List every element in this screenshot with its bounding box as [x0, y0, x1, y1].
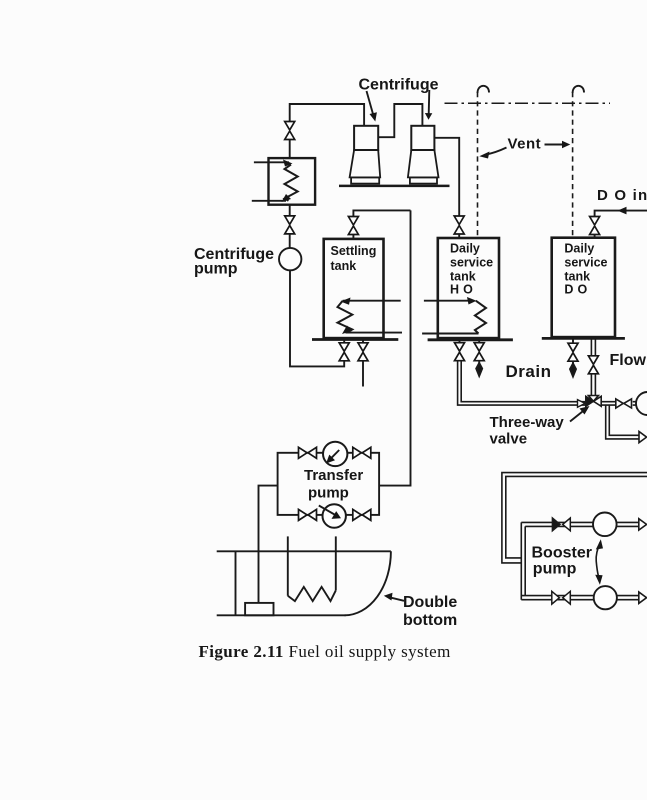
heater inlet arrowhead [283, 160, 293, 167]
vent pipe 2 dashed [572, 92, 574, 238]
valve V4 under settling tank (drain) [358, 343, 368, 361]
open arrow at branch end [639, 432, 647, 443]
booster return loop outer [502, 473, 647, 563]
valve V18 lower-right transfer [353, 509, 371, 520]
daily service tank DO box [552, 238, 615, 337]
three-way valve left triangle (dark) [586, 396, 594, 406]
double bottom tank bottom line [217, 614, 346, 616]
valve V10 under DO tank (drain) [568, 343, 578, 361]
HO coil zigzag [475, 301, 486, 334]
svg-text:bottom: bottom [403, 612, 457, 629]
booster pump P2 circle [593, 513, 617, 537]
centrifuge 1 base [351, 177, 379, 183]
heater coil exit arrowhead [282, 194, 292, 202]
P5 direction arrow [319, 506, 338, 517]
settling tank coil arrowhead [341, 298, 351, 305]
P4 arrowhead [326, 455, 335, 464]
svg-text:Centrifuge: Centrifuge [359, 77, 439, 94]
vent label right arrow [545, 144, 565, 146]
centrifuge arrow 1 head [370, 112, 377, 121]
valve V13 right half [563, 518, 571, 531]
settling tank coil upper line [343, 300, 401, 302]
wire: valve V3 to tank bottom [343, 339, 345, 343]
HO tank base line [428, 338, 513, 341]
double bottom leader arrowhead [384, 593, 393, 601]
flow arrowhead on drain run [578, 400, 586, 408]
settling tank base line [312, 338, 398, 341]
HO coil arrowhead [467, 297, 477, 305]
wire: settling tank top valve to fill pipe [353, 210, 410, 239]
upper booster discharge double pipe [617, 522, 640, 526]
valve V13 upper booster (left filled) [552, 518, 560, 531]
centrifuge arrow 2 head [425, 113, 432, 120]
svg-text:Drain: Drain [506, 362, 552, 381]
heater coil zigzag [285, 165, 298, 201]
booster suction manifold double line [521, 522, 525, 599]
settling tank coil exit arrowhead [342, 326, 352, 335]
double bottom bilge arc [345, 551, 391, 615]
flowmeter circle (clipped at edge) [636, 392, 647, 415]
double bottom label leader [389, 597, 404, 601]
vent label left arrow [485, 148, 507, 155]
svg-text:tank: tank [331, 259, 357, 273]
HO coil upper line [424, 300, 472, 302]
svg-text:service: service [450, 256, 493, 270]
svg-text:tank: tank [564, 270, 590, 284]
open arrow upper discharge [639, 519, 647, 530]
HO suction double pipe to three-way valve (outer) [458, 361, 586, 405]
svg-text:Transfer: Transfer [304, 467, 363, 484]
DO supply double pipe upper segment [591, 338, 595, 356]
HO coil lower line [422, 333, 478, 335]
wire: top-left horizontal pipe to centrifuge 1 [290, 104, 364, 125]
centrifuge 1 inlet wire already drawn; centrifuge 1 bowl top [354, 126, 378, 150]
upper booster suction double pipe [521, 522, 593, 526]
DO inlet pipe with valve [595, 211, 647, 217]
wire: centrifuge 2 discharge down to HO tank valve [434, 138, 459, 216]
DO inlet arrowhead [618, 207, 627, 215]
svg-text:D O: D O [564, 283, 587, 297]
svg-text:tank: tank [450, 270, 476, 284]
centrifuge 1 body trapezoid [350, 150, 381, 177]
vent pipe 1 dashed [477, 92, 479, 238]
wire: V8 stub to tank base [478, 340, 480, 343]
booster label arrowhead top [596, 539, 603, 549]
svg-text:Three-way: Three-way [490, 414, 565, 431]
valve V14 lower booster [552, 591, 560, 604]
wire: drain stub below valve V4 [362, 361, 364, 387]
daily service tank HO box [438, 238, 499, 338]
DO tank base line [542, 337, 625, 340]
booster pump P3 circle [594, 586, 617, 609]
valve V7 under HO tank (suction) [455, 343, 465, 361]
double bottom coil pipe 2 [335, 536, 337, 590]
valve V3 under settling tank (suction) [339, 343, 349, 361]
svg-text:Flowmeter: Flowmeter [610, 352, 647, 369]
valve V1 above heater [285, 122, 295, 140]
svg-text:Figure 2.11 Fuel oil supply sy: Figure 2.11 Fuel oil supply system [199, 642, 451, 661]
open arrow lower discharge [639, 592, 647, 603]
double bottom coil pipe 1 [287, 536, 289, 595]
valve V16 upper-right transfer [353, 447, 371, 458]
svg-text:Daily: Daily [450, 242, 480, 256]
svg-text:Daily: Daily [564, 242, 594, 256]
valve V2 below heater [285, 216, 295, 234]
suction bellmouth box [245, 603, 273, 615]
drain arrow below V10 [570, 364, 576, 377]
valve V15 upper-left transfer [299, 447, 317, 458]
vent label right arrowhead [562, 141, 570, 148]
double bottom tank left wall [235, 551, 237, 615]
drain arrow below V8 [476, 363, 482, 376]
wire: valve V1 to heater top [289, 140, 291, 159]
svg-text:pump: pump [533, 561, 577, 578]
valve V6 above HO daily tank [454, 216, 464, 234]
valve V11 DO supply [588, 356, 598, 374]
wire: V7 stub to tank base [459, 340, 461, 343]
transfer pump P4 circle [323, 442, 347, 466]
svg-text:pump: pump [194, 261, 238, 278]
P4 direction arrow [330, 450, 340, 460]
valve V5 on settling tank top [348, 217, 358, 235]
centrifuge label arrow 1 [367, 91, 374, 117]
T-branch (inner) [609, 405, 639, 435]
DO supply double pipe lower segment [591, 373, 595, 395]
P5 arrowhead [332, 511, 342, 519]
svg-text:pump: pump [308, 484, 349, 501]
three-way leader arrowhead [580, 406, 590, 415]
booster pump label curvy arrow [596, 542, 600, 577]
valve V9 above DO tank [590, 217, 600, 235]
svg-text:H O: H O [450, 283, 473, 297]
wire: transfer suction from double bottom [259, 486, 278, 603]
wire: centrifuge 1 to centrifuge 2 riser [378, 104, 422, 137]
heater E1 box [269, 158, 316, 205]
lower booster suction double pipe [521, 596, 594, 600]
booster label arrowhead bottom [595, 575, 602, 585]
svg-text:Double: Double [403, 594, 457, 611]
T-branch down from flowmeter line (outer) [606, 405, 640, 439]
lower booster discharge double pipe [617, 596, 639, 600]
transfer pump loop rectangle [278, 453, 380, 515]
svg-text:Booster: Booster [532, 545, 592, 562]
centrifuge 2 bowl top [411, 126, 434, 150]
three-way valve label leader arrow [570, 410, 585, 422]
wire: drain stem below V8 [478, 361, 480, 364]
wire: valve V2 to centrifuge pump [289, 234, 291, 248]
heater steam inlet stub [254, 161, 289, 163]
centrifuge 2 body trapezoid [408, 150, 439, 177]
centrifuge stand line [339, 185, 450, 188]
wire: valve V4 stub to tank bottom [362, 339, 364, 343]
valve V12 to flowmeter [616, 399, 632, 408]
settling tank coil zigzag [338, 301, 353, 333]
svg-text:Settling: Settling [331, 244, 377, 258]
HO suction double pipe (inner) [461, 361, 586, 402]
double bottom coil zigzag [288, 587, 336, 601]
svg-text:Vent: Vent [508, 135, 542, 152]
heater steam outlet stub [252, 200, 286, 202]
double bottom tank top line [217, 550, 391, 552]
svg-text:service: service [564, 256, 607, 270]
chain line (dash-dot) vent header [445, 102, 611, 104]
valve V17 lower-left transfer [299, 509, 317, 520]
pipe right of three-way valve (double) [601, 402, 616, 405]
vent pipe 1 gooseneck hook [478, 86, 490, 93]
wire: long fill pipe down to transfer pump discharge [379, 210, 410, 485]
centrifuge pump P1 circle [279, 248, 301, 270]
centrifuge label arrow 2 [428, 90, 431, 115]
transfer pump P5 circle [323, 504, 346, 527]
vent label left arrowhead [479, 152, 489, 159]
three-way valve right triangle [593, 396, 601, 406]
svg-text:valve: valve [490, 430, 528, 447]
wire: pump P1 down, right, up to settling tank outlet valve [290, 270, 344, 366]
three-way valve top triangle [588, 396, 598, 402]
wire: valve V6 to HO tank top [458, 234, 460, 238]
centrifuge 2 base [410, 177, 437, 183]
valve V8 under HO tank (drain) [474, 343, 484, 361]
wire: heater bottom to valve V2 [289, 205, 291, 216]
booster return loop inner [506, 476, 647, 558]
pipe valve V12 to flowmeter [633, 402, 637, 405]
wire: valve V9 to DO tank top [594, 235, 596, 238]
settling tank T1 box [324, 239, 384, 338]
wire: V10 stub [572, 338, 574, 364]
vent pipe 2 gooseneck hook [573, 86, 584, 93]
svg-text:D O in: D O in [597, 187, 647, 204]
settling tank coil lower line [345, 332, 402, 334]
